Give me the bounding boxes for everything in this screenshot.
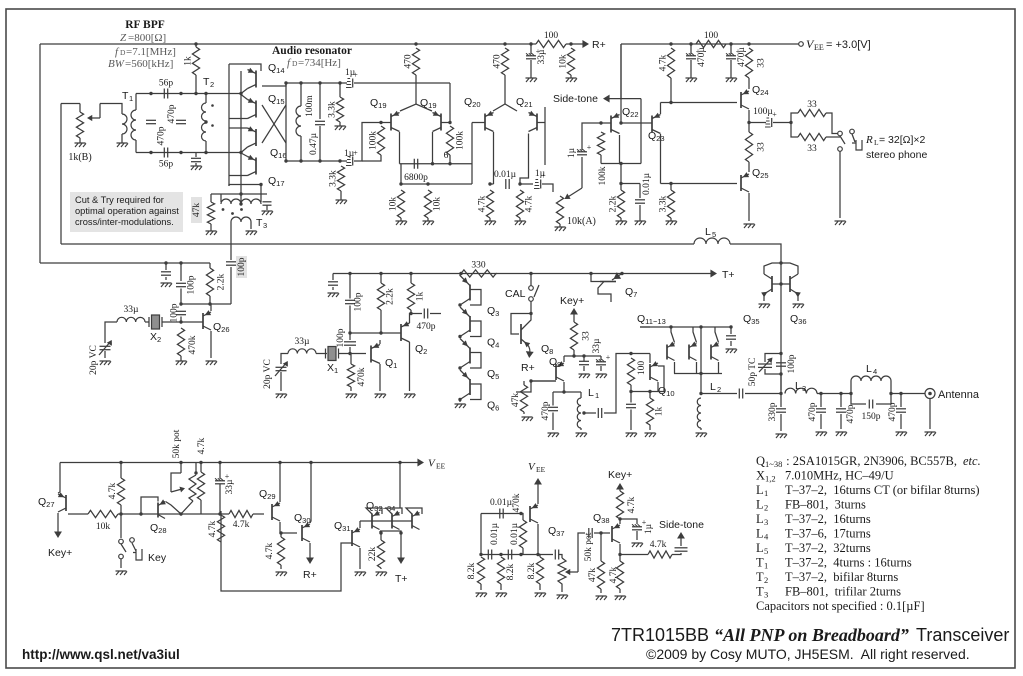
wire q38 base [594, 532, 610, 534]
svg-text:R+: R+ [521, 362, 535, 374]
capacitor 0.01u f [555, 550, 558, 560]
wire cal lead [530, 274, 532, 286]
svg-text:L: L [756, 483, 764, 497]
junction T3 center tap [239, 202, 242, 205]
svg-text:+: + [353, 149, 358, 158]
svg-text:47k: 47k [192, 203, 202, 218]
highlight 47k [191, 197, 202, 223]
label Q17 [268, 175, 285, 188]
wire Q19R collector [432, 132, 434, 164]
label 47k [192, 203, 202, 218]
wire 10k a gnd [400, 218, 402, 221]
wire 47k top lead [210, 194, 212, 202]
wire 4.7k j top [619, 555, 621, 562]
transistor Q27 [58, 492, 66, 512]
wire 1u e link [620, 519, 637, 524]
svg-text:47k: 47k [511, 393, 521, 408]
transformer T3 primary [221, 199, 261, 204]
svg-text:33µ: 33µ [295, 337, 311, 347]
label Q19b [420, 97, 437, 110]
wire pa to line [780, 374, 782, 394]
label 100 c [637, 361, 647, 376]
wire 8.2k b bot [500, 584, 502, 590]
switch key lever [121, 543, 136, 552]
svg-text:470p: 470p [808, 402, 818, 421]
wire q27 base [68, 513, 88, 515]
transistor Q32-34 at 372 [372, 511, 380, 530]
wire 4.7k d bot [120, 505, 122, 514]
wire 0.47u top lead [319, 83, 321, 119]
label L3 main [795, 380, 806, 393]
crystal X1 [326, 347, 339, 361]
svg-text:=7.1[MHz]: =7.1[MHz] [126, 46, 176, 58]
wire 47k c2 bot [600, 589, 602, 593]
wire Q19R base up [449, 83, 451, 123]
svg-text:33: 33 [807, 144, 817, 154]
capacitor L2 coupling [739, 389, 742, 399]
wire q2 base rail [350, 332, 401, 334]
resistor 100k a [369, 126, 385, 155]
wire bt riser [480, 514, 482, 555]
transistor Q13 mixer [711, 342, 719, 361]
label fo=734Hz [287, 57, 341, 69]
svg-text:4.7k: 4.7k [650, 540, 667, 550]
label 0.47u [309, 132, 319, 155]
svg-text:Q19: Q19 [370, 97, 387, 110]
label 470p g [888, 402, 898, 421]
resistor 4.7k j [616, 561, 623, 589]
transistor Q36 [790, 274, 801, 297]
label T2 main [203, 76, 210, 88]
junction key d [218, 512, 221, 515]
capacitor 470p right [176, 120, 186, 123]
resistor 10k c [88, 510, 118, 517]
junction q22 base [599, 121, 602, 124]
svg-text:330: 330 [471, 261, 486, 271]
label Q8 [541, 343, 553, 356]
svg-text:T: T [256, 217, 263, 229]
wire 100m top lead [300, 83, 302, 106]
svg-text:+: + [606, 353, 611, 362]
ground 4.7k b [515, 221, 527, 225]
wire 100m bot lead [300, 136, 302, 161]
junction q7 base [589, 272, 592, 275]
wire 4.7k g top [280, 533, 282, 537]
phase dot T3 a [222, 208, 225, 211]
wire antenna gnd [929, 399, 931, 430]
label Q32-34 [366, 500, 395, 513]
ground VC tx [276, 394, 288, 398]
svg-text:100k: 100k [598, 166, 608, 185]
svg-text:T–37–2, bifilar 8turns: T–37–2, bifilar 8turns [785, 570, 898, 584]
svg-text:100: 100 [704, 31, 719, 41]
ground 330p [776, 434, 788, 438]
label Q37 [548, 525, 565, 538]
phase dot T3 c [231, 212, 234, 215]
wire 4.7k d leads [120, 463, 122, 479]
svg-text:T+: T+ [722, 269, 735, 281]
svg-text:Q26: Q26 [213, 321, 230, 334]
resistor 47k c2 [597, 561, 604, 589]
wire long mid rail [61, 243, 694, 245]
label Q3 [487, 305, 499, 318]
wire pa base link [772, 283, 790, 285]
junction inner rail base Q14 [239, 92, 242, 95]
label Key+ osc [560, 295, 584, 307]
svg-text:RF BPF: RF BPF [125, 19, 165, 31]
ground q9 bypass [579, 374, 591, 378]
wire bias drop [620, 164, 622, 184]
wire 470k b top [350, 354, 352, 365]
wire q27 e [59, 463, 61, 493]
svg-text:Z: Z [120, 32, 127, 44]
junction line b [819, 392, 822, 395]
ground Q31 [355, 572, 367, 576]
ground buf bypass [626, 433, 638, 437]
capacitor 100p osc2 [344, 342, 356, 345]
label T2 sub [210, 80, 214, 89]
capacitor 0.01u b [635, 200, 645, 203]
wire q9 byp leads [583, 356, 585, 361]
label 8.2k a [467, 562, 477, 579]
resistor 33 b [745, 132, 766, 162]
ground 10k a [396, 221, 408, 225]
capacitor 470u b [726, 47, 747, 67]
wire 1k b top [410, 274, 412, 284]
junction chain 5 [458, 366, 461, 369]
svg-text:Q5: Q5 [487, 368, 499, 381]
capacitor 470p g [896, 409, 906, 412]
resistor 2.2k b [206, 268, 226, 296]
arrow Key+ a [54, 513, 62, 538]
key jack icon [133, 549, 142, 560]
wire q2 emitter up [410, 314, 412, 324]
label 1u top [345, 68, 356, 78]
url text [22, 647, 180, 662]
wire q9 bias rail [531, 380, 556, 382]
svg-text:4: 4 [764, 532, 769, 542]
label 330p [768, 402, 778, 421]
wire Q24 base wire [671, 102, 737, 104]
wire q28 collector up [210, 304, 212, 311]
label Q10 [658, 385, 675, 398]
junction top rail a [284, 81, 287, 84]
wire to vol cap [520, 183, 533, 185]
wire audio out bottom [354, 123, 381, 162]
wire L2 gnd [700, 428, 702, 430]
label Q7 [625, 286, 637, 299]
wire VEE arrow link [399, 463, 401, 509]
wire top VEE rail right [566, 43, 584, 45]
arrow VEE sidetone [528, 461, 546, 494]
wire 100p rx bot [180, 289, 182, 305]
wire 470u b lead [730, 44, 732, 54]
terminal key c [119, 554, 124, 559]
transistor Q20 [485, 111, 494, 132]
svg-text:optimal operation against: optimal operation against [75, 206, 179, 216]
junction 1k b top [409, 272, 412, 275]
wire 4.7k g bot [280, 565, 282, 569]
label 1u c [535, 169, 546, 179]
capacitor 0.01u c [500, 509, 503, 519]
arrow T+ keyer [395, 533, 408, 585]
wire 4.7k e bot [200, 500, 202, 514]
label 150p [862, 412, 881, 422]
junction 100p2 top [179, 302, 182, 305]
arrow side-tone [603, 95, 641, 103]
resistor 470k a [177, 328, 184, 356]
wire Q14 collector link [241, 89, 248, 94]
svg-text:http://www.qsl.net/va3iul: http://www.qsl.net/va3iul [22, 647, 180, 662]
capacitor osc bypass [328, 282, 338, 285]
label Q31 [334, 520, 351, 533]
label T1 main [122, 90, 129, 102]
svg-text:1k: 1k [184, 56, 194, 66]
label 470p right [167, 104, 177, 123]
label X1 main [327, 362, 334, 374]
label X2 sub [157, 335, 161, 344]
junction 100k b bottom [448, 162, 451, 165]
svg-text:EE: EE [436, 462, 446, 471]
label 0.01u b [642, 172, 652, 195]
resistor 100k c [597, 132, 604, 155]
wire resonator top loop [229, 64, 261, 71]
wire T1 pri top [120, 104, 122, 115]
junction T2 top [204, 92, 207, 95]
loop Q32-34 372 [366, 508, 382, 514]
transformer T1 secondary [131, 110, 136, 140]
junction q30 e [309, 461, 312, 464]
svg-text:EE: EE [814, 43, 824, 52]
label Q30 [294, 512, 311, 525]
junction top rail d [338, 81, 341, 84]
svg-text:Q6: Q6 [487, 400, 499, 413]
wire Q19L collector [399, 132, 401, 164]
copyright text [646, 646, 970, 662]
svg-text:R+: R+ [592, 39, 606, 51]
svg-text:X: X [150, 331, 157, 343]
svg-text:100p: 100p [237, 257, 247, 276]
wire T1 pri gnd lead [121, 134, 123, 143]
wire sidetone out b [672, 553, 681, 555]
wire 1k c gnd [649, 425, 651, 430]
svg-text:50p TC: 50p TC [748, 358, 758, 387]
ground 47k [206, 231, 218, 235]
svg-text:T–37–2, 4turns : 16turns: T–37–2, 4turns : 16turns [785, 556, 912, 570]
wire 470k a bot [180, 356, 182, 361]
wire Q19L col down [400, 164, 402, 184]
wire x2 left [145, 321, 149, 323]
note box [70, 192, 183, 232]
resistor 4.7k k [648, 551, 672, 558]
junction q37 base [519, 512, 522, 515]
junction 10k b top [426, 182, 429, 185]
junction buf in [629, 352, 632, 355]
wire 33b up [748, 123, 750, 133]
svg-text:T: T [756, 556, 764, 570]
svg-text:3.3k: 3.3k [659, 195, 669, 212]
terminal key a [119, 539, 124, 544]
transistor Q16 [248, 126, 257, 147]
wire 3.3k c top [670, 184, 672, 191]
wire L1 top [580, 392, 582, 398]
label 47k b [511, 393, 521, 408]
junction line c [839, 392, 842, 395]
inductor 100m [296, 106, 301, 136]
label 4.7k e lbl [197, 437, 207, 454]
transistor Q9 [556, 361, 564, 381]
wire q9 collector [563, 382, 565, 392]
wire 470p e gnd [820, 414, 822, 429]
wire mixer cap gnd [730, 341, 732, 346]
wire q35 col [763, 294, 765, 301]
svg-text:3: 3 [764, 517, 768, 527]
label Key [148, 552, 167, 564]
capacitor 470p osc [424, 309, 427, 319]
label 22k [368, 547, 378, 562]
svg-text:Q32~34: Q32~34 [366, 500, 395, 513]
transformer T2 winding upper [202, 103, 207, 121]
wire 4.7k b gnd [519, 218, 521, 221]
parts list T2 [756, 570, 898, 585]
ground 10k(A) [555, 227, 567, 231]
ground 470p f [836, 432, 848, 436]
ground 47k b [522, 417, 534, 421]
svg-text:L: L [710, 381, 716, 393]
loop Q10 [650, 366, 664, 392]
svg-text:R+: R+ [303, 569, 317, 581]
junction q38 col [618, 553, 621, 556]
wire collector link [400, 163, 473, 165]
svg-text:100k: 100k [456, 131, 466, 150]
wire q37 col [537, 524, 539, 555]
svg-text:1k: 1k [416, 292, 426, 302]
svg-text:33: 33 [807, 100, 817, 110]
label Q26 [213, 321, 230, 334]
capacitor 470p left [146, 120, 156, 123]
junction pa b [779, 282, 782, 285]
svg-text:Q2: Q2 [415, 343, 427, 356]
wire T3 tap link [240, 194, 242, 204]
svg-text:5: 5 [712, 230, 716, 239]
ground mixer cap [726, 349, 738, 353]
wire q32 cols [380, 531, 381, 533]
svg-text:8.2k: 8.2k [467, 562, 477, 579]
transistor Q29 [272, 501, 280, 521]
wire 4.7k j bot [619, 589, 621, 593]
wire T+ rail [496, 273, 712, 275]
svg-text:Q37: Q37 [548, 525, 565, 538]
wire T3 cap gnd [266, 205, 268, 210]
resistor 4.7k c [659, 48, 675, 78]
svg-text:33µ: 33µ [592, 338, 602, 354]
resistor 4.7k g [277, 537, 284, 565]
wire q10 base up [649, 354, 651, 364]
junction 2.2k c top [379, 272, 382, 275]
resistor 3.3k a [328, 97, 344, 122]
wire pot50 link [559, 555, 562, 559]
wire x1 to q1 [339, 353, 367, 355]
svg-text:10k: 10k [96, 522, 111, 532]
wire audio out top [354, 82, 450, 84]
svg-text:FB–801, 3turns: FB–801, 3turns [785, 498, 866, 512]
resistor 100 right [696, 31, 726, 48]
capacitor buf bypass [626, 404, 636, 407]
svg-text:FB–801, trifilar 2turns: FB–801, trifilar 2turns [785, 585, 901, 599]
label X1 sub [334, 366, 338, 375]
capacitor 33u e [596, 353, 611, 365]
svg-text:20p VC: 20p VC [263, 359, 273, 389]
junction Q19L base [379, 121, 382, 124]
svg-text:5: 5 [764, 546, 768, 556]
svg-text:1: 1 [764, 561, 768, 571]
wire 33u e leads [600, 356, 602, 360]
svg-text:3: 3 [263, 221, 267, 230]
antenna terminal [925, 389, 935, 399]
terminal CAL b [529, 297, 534, 302]
wire pot to T1 [100, 103, 120, 105]
label L5 main [705, 226, 716, 239]
label 33u rx [124, 305, 140, 315]
ground VC rx [100, 361, 112, 365]
junction 47k d [529, 379, 532, 382]
capacitor 0.01u d [488, 550, 491, 560]
capacitor 56p top [159, 79, 174, 99]
svg-text:22k: 22k [368, 547, 378, 562]
wire Q14 output to rail [262, 83, 286, 86]
svg-text:100k: 100k [369, 131, 379, 150]
junction 100b left [689, 42, 692, 45]
svg-text:Q9: Q9 [549, 356, 561, 369]
pot 50k [171, 473, 196, 501]
wire q3 feed [459, 274, 461, 277]
svg-text:: 2SA1015GR, 2N3906, BC557B,: : 2SA1015GR, 2N3906, BC557B, [783, 454, 957, 468]
junction T3 right riser [259, 183, 262, 186]
junction Q20 col [488, 182, 491, 185]
resistor 33 a [745, 48, 766, 78]
label 33u f [225, 479, 235, 495]
capacitor 56p bottom [159, 148, 174, 170]
wire Q16 emitter link [229, 127, 248, 129]
capacitor 0.47u [315, 121, 325, 124]
svg-text:0.01µ: 0.01µ [490, 522, 500, 545]
wire 470u b gnd lead [730, 60, 732, 78]
resistor 4.7k d [117, 478, 124, 505]
svg-text:Q38: Q38 [593, 512, 610, 525]
note text [75, 195, 179, 227]
wire 1k bottom lead [195, 75, 197, 94]
capacitor q38 in [589, 528, 592, 538]
wire 4.7k c bot [670, 78, 672, 103]
ground 8.2k c [535, 593, 547, 597]
capacitor 100p pa [776, 363, 786, 366]
svg-text:1: 1 [595, 391, 599, 400]
wire T1 sec top [135, 94, 137, 111]
resistor 4.7k f [229, 510, 253, 530]
junction pa c [779, 372, 782, 375]
wire buf rail [631, 353, 650, 355]
svg-text:CAL: CAL [505, 288, 526, 300]
label Key+ a [48, 547, 72, 559]
wire 470p osc left [411, 313, 422, 315]
wire 47k c2 top [600, 533, 602, 561]
wire 470b tail [504, 75, 506, 104]
capacitor 100u [765, 110, 777, 127]
wire 2.2k c top [380, 274, 382, 284]
wire q38 e up [619, 519, 621, 524]
transistor Q12 mixer [689, 342, 697, 361]
ground 3.3k b [336, 200, 348, 204]
